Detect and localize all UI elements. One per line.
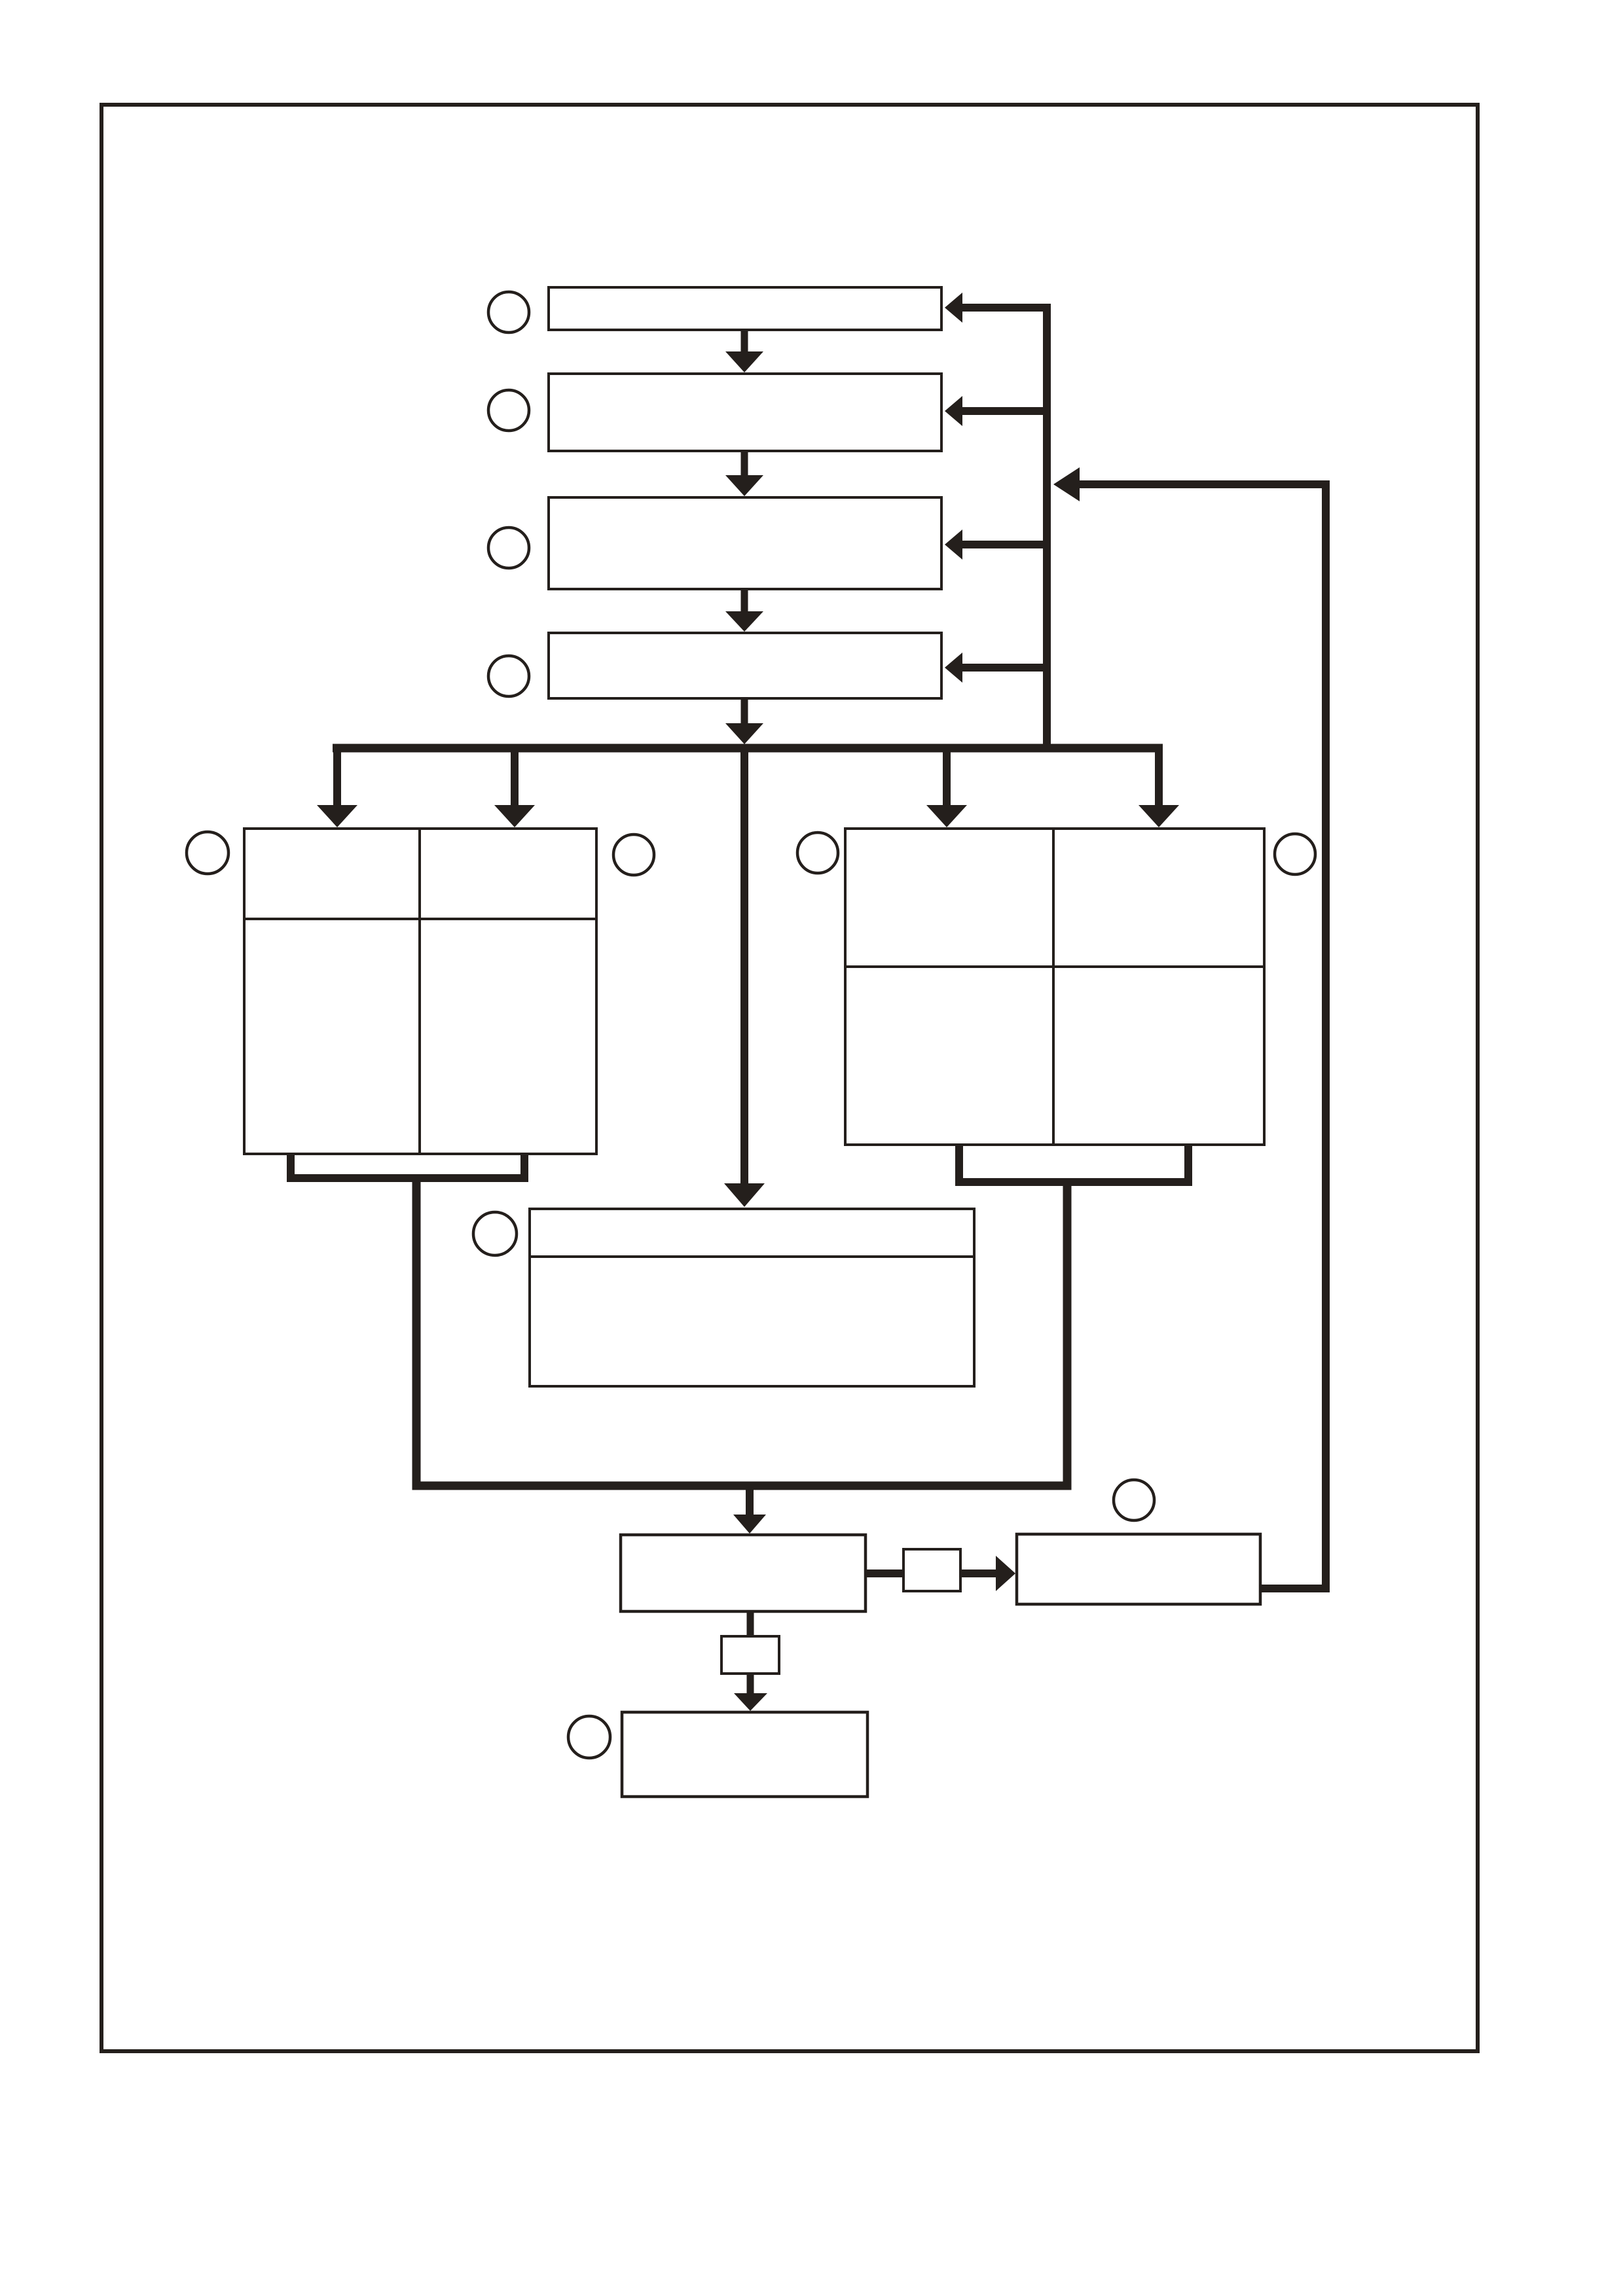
- center branch arrow to center box: [724, 745, 765, 1207]
- arrow box3 to box4: [725, 590, 763, 632]
- circle marker 3: [488, 528, 529, 568]
- arrow line A into box3: [945, 529, 1047, 560]
- circle marker right of right table: [1275, 834, 1315, 874]
- small square connector 2: [721, 1636, 779, 1674]
- bracket under left table: [291, 1155, 524, 1178]
- circle marker 1: [488, 292, 529, 332]
- center box with header: [530, 1209, 974, 1386]
- small square connector 1: [903, 1549, 960, 1591]
- arrow line A into box4: [945, 653, 1047, 683]
- circle marker above right box: [1114, 1480, 1154, 1520]
- arrow box2 to box3: [725, 452, 763, 496]
- branch arrow 1 to left table col1: [317, 745, 357, 827]
- distribution line: [333, 744, 1163, 753]
- arrow line A into box2: [945, 396, 1047, 426]
- arrow box1 to box2: [725, 331, 763, 372]
- final box: [622, 1712, 867, 1797]
- circle marker left of final box: [568, 1716, 610, 1758]
- outer border frame: [101, 105, 1478, 2051]
- box 1 (top row): [549, 287, 941, 330]
- arrowhead into box1 right side: [945, 293, 962, 323]
- arrow square 2 to final box: [734, 1675, 767, 1711]
- circle marker left of left table: [187, 832, 228, 874]
- wire: left stem, bottom connector, right stem: [416, 1179, 1067, 1486]
- box 4: [549, 633, 941, 698]
- wire process box down to square 2: [747, 1613, 754, 1636]
- arrowhead feedback into line A: [1053, 467, 1080, 501]
- feedback line B from right box up and left into line A: [1078, 484, 1326, 1588]
- arrow box4 to distribution line: [725, 700, 763, 744]
- right box: [1017, 1534, 1260, 1604]
- process box: [621, 1535, 866, 1611]
- right table: [845, 829, 1264, 1145]
- box 2: [549, 374, 941, 451]
- circle marker left of right table: [797, 833, 838, 873]
- left table: [244, 829, 596, 1154]
- branch arrow 4 to right table col2: [1139, 745, 1179, 827]
- bracket under right table: [959, 1146, 1188, 1182]
- circle marker 2: [488, 390, 529, 431]
- circle marker of center box: [473, 1212, 517, 1255]
- vertical feed line A with corner to box1: [961, 308, 1047, 748]
- arrow connector to process box: [733, 1486, 766, 1534]
- branch arrow 2 to left table col2: [494, 745, 535, 827]
- circle marker right of left table: [613, 834, 654, 875]
- circle marker 4: [488, 656, 529, 696]
- branch arrow 3 to right table col1: [926, 745, 967, 827]
- box 3: [549, 497, 941, 589]
- wire process box to right box with arrowhead: [867, 1556, 1015, 1591]
